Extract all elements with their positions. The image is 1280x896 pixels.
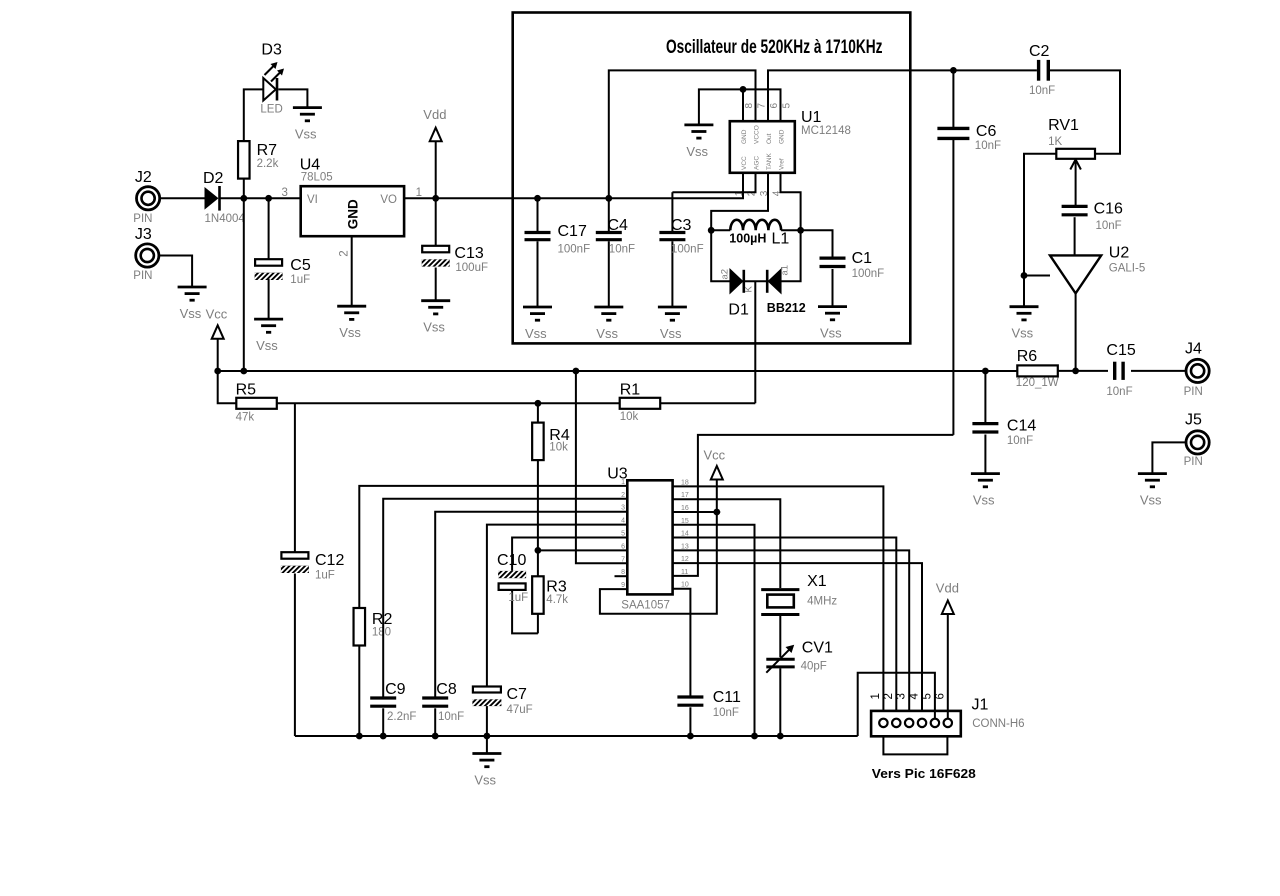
svg-text:VI: VI: [307, 194, 318, 206]
capacitor C11 10nF: [677, 689, 741, 736]
svg-text:1N4004: 1N4004: [205, 213, 246, 225]
svg-text:5: 5: [921, 693, 933, 699]
svg-text:C9: C9: [385, 681, 406, 698]
svg-text:Vss: Vss: [1140, 493, 1162, 508]
wire ground row bottom: [295, 733, 858, 740]
wire LED cathode to ground: [278, 89, 307, 107]
ground C5: [254, 319, 283, 353]
svg-text:2: 2: [883, 693, 895, 699]
svg-text:16: 16: [681, 505, 689, 512]
svg-text:8: 8: [621, 569, 625, 576]
svg-text:100uF: 100uF: [455, 262, 488, 274]
oscillator frame box: [513, 13, 911, 344]
ground D3: [293, 108, 322, 142]
capacitor C14 10nF: [972, 371, 1036, 474]
svg-text:6: 6: [934, 693, 946, 699]
svg-text:BB212: BB212: [767, 301, 806, 315]
svg-text:C3: C3: [671, 217, 692, 234]
wire U3 pin11 to C6 (fref input): [673, 435, 954, 576]
svg-text:C8: C8: [436, 681, 457, 698]
svg-text:1uF: 1uF: [290, 274, 310, 286]
svg-text:C16: C16: [1094, 201, 1123, 218]
svg-text:TANK: TANK: [766, 152, 773, 170]
svg-text:1K: 1K: [1048, 136, 1062, 148]
capacitor C2 10nF: [1029, 43, 1055, 97]
capacitor C5 1uF: [247, 198, 311, 319]
U3 pin numbers: [621, 479, 689, 589]
synthesizer U3 SAA1057: [607, 466, 672, 612]
oscillator U1 MC12148: [730, 109, 851, 173]
wire U3 pin7 to Vcc row: [576, 371, 627, 563]
svg-text:R7: R7: [257, 142, 278, 159]
power Vcc arrow left: [206, 307, 228, 372]
svg-text:8: 8: [744, 103, 755, 109]
resistor R4 10k: [532, 403, 570, 550]
resistor R1 10k: [538, 382, 755, 424]
wire RF output row: [1058, 368, 1186, 375]
wire R5 to R1/R4 node: [277, 400, 542, 407]
wire U3 pin2 bus to C9: [383, 499, 627, 698]
svg-text:4.7k: 4.7k: [546, 594, 568, 606]
svg-text:7: 7: [757, 103, 768, 109]
wire D1 cathode tap down to R1: [754, 281, 756, 403]
svg-text:1uF: 1uF: [315, 569, 335, 581]
ground U4: [337, 306, 366, 340]
svg-text:11: 11: [681, 569, 688, 576]
capacitor C3 100nF: [659, 192, 703, 307]
wire U3 pin1 bus to R2: [359, 486, 627, 608]
svg-text:AGC: AGC: [754, 156, 761, 170]
capacitor C4 10nF: [596, 198, 635, 307]
svg-text:Vss: Vss: [686, 144, 708, 159]
ground C13: [421, 301, 450, 335]
svg-text:7: 7: [621, 556, 625, 563]
capacitor C9 2.2nF: [370, 681, 416, 736]
svg-text:Vss: Vss: [660, 326, 682, 341]
wire J3 to ground: [160, 256, 193, 288]
wire U3 pin16 to Vcc: [673, 511, 721, 513]
svg-text:1uF: 1uF: [508, 592, 528, 604]
svg-text:Vss: Vss: [474, 773, 496, 788]
svg-text:Vss: Vss: [1012, 326, 1034, 341]
connector J4: [1184, 340, 1210, 398]
svg-text:1: 1: [621, 479, 625, 486]
svg-text:9: 9: [621, 582, 625, 589]
svg-text:C14: C14: [1007, 418, 1036, 435]
ground bottom row: [472, 736, 501, 788]
capacitor C6 10nF: [937, 70, 1001, 435]
wire U1 pin2 AGC to C3: [672, 173, 755, 192]
svg-text:Vdd: Vdd: [423, 107, 446, 122]
wire U3 pin12 to J1 pin4: [673, 563, 922, 718]
svg-text:GND: GND: [346, 199, 361, 229]
wire J5 to ground: [1152, 442, 1186, 473]
wire U3 pin15 to ground row: [673, 525, 755, 736]
svg-text:D3: D3: [261, 42, 282, 59]
svg-text:Vers Pic 16F628: Vers Pic 16F628: [872, 767, 976, 781]
wire U3 pin17 to X1: [673, 499, 781, 588]
ground C3: [658, 307, 687, 341]
svg-text:17: 17: [681, 492, 689, 499]
svg-text:3: 3: [621, 505, 625, 512]
svg-text:120_1W: 120_1W: [1016, 377, 1059, 389]
svg-text:2.2k: 2.2k: [257, 158, 279, 170]
svg-text:15: 15: [681, 518, 689, 525]
svg-text:a2: a2: [720, 269, 731, 280]
connector J5: [1184, 412, 1210, 468]
svg-text:L1: L1: [772, 231, 790, 248]
svg-text:K: K: [744, 286, 755, 293]
inductor L1 100uH: [708, 220, 804, 248]
svg-text:100nF: 100nF: [852, 268, 885, 280]
U3 pin8 stub: [615, 575, 628, 577]
wire U3 pin18 to J1 pin1: [673, 486, 884, 718]
wire U1 pin4 Vref to tank right node: [781, 173, 801, 231]
wire U4 VO rail to U1 pin1 (Vcc rail): [404, 173, 743, 202]
svg-text:47k: 47k: [236, 411, 255, 423]
svg-text:CONN-H6: CONN-H6: [972, 718, 1024, 730]
svg-text:10nF: 10nF: [713, 707, 739, 719]
svg-text:14: 14: [681, 531, 689, 538]
ground U1: [684, 125, 713, 159]
connector J2: [133, 169, 159, 225]
wire U1 pin8 pin5 GND to ground: [699, 86, 781, 125]
wire C12 branch: [294, 403, 296, 552]
svg-text:C17: C17: [558, 223, 587, 240]
capacitor C7 47uF: [466, 686, 533, 736]
svg-text:5: 5: [782, 103, 793, 109]
svg-text:Vdd: Vdd: [936, 581, 959, 596]
svg-text:100nF: 100nF: [671, 244, 704, 256]
wire U3 pin9 to Vcc arrow: [600, 480, 720, 614]
wire U3 pin10 to C11: [673, 589, 691, 697]
svg-text:4: 4: [909, 693, 921, 700]
power Vdd arrow at J1: [936, 581, 959, 719]
svg-text:C1: C1: [852, 250, 873, 267]
wire U1 pin7 VCCO to Vcc rail: [609, 70, 756, 198]
svg-text:10nF: 10nF: [1096, 220, 1122, 232]
svg-text:180: 180: [372, 626, 391, 638]
svg-text:U2: U2: [1109, 245, 1130, 262]
svg-text:C12: C12: [315, 552, 344, 569]
svg-text:J5: J5: [1185, 412, 1202, 429]
ground J5: [1138, 474, 1167, 508]
wire U3 pin14 to J1 pin2: [673, 538, 897, 719]
svg-text:1: 1: [870, 693, 882, 699]
ground C14: [971, 474, 1000, 508]
svg-text:VCCO: VCCO: [754, 125, 761, 144]
svg-text:C10: C10: [497, 552, 526, 569]
resistor R7 2.2k: [238, 141, 279, 198]
varactor D1 BB212 dual diode: [711, 230, 806, 318]
svg-text:C5: C5: [290, 257, 311, 274]
wire Vcc distribution row: [214, 368, 1017, 375]
svg-text:1: 1: [416, 187, 422, 199]
svg-text:3: 3: [282, 187, 288, 199]
svg-text:J4: J4: [1185, 340, 1202, 357]
ground C1: [818, 307, 847, 341]
connector J3: [133, 226, 159, 282]
ground C17: [523, 307, 552, 341]
potentiometer RV1 1K: [1024, 117, 1095, 276]
svg-text:Vss: Vss: [596, 326, 618, 341]
capacitor C1 100nF: [801, 230, 885, 306]
capacitor C15 10nF: [1106, 342, 1135, 398]
trimmer capacitor CV1 40pF: [766, 639, 833, 736]
svg-text:R6: R6: [1017, 348, 1038, 365]
svg-text:U1: U1: [801, 109, 822, 126]
svg-text:Vss: Vss: [820, 326, 842, 341]
svg-text:D1: D1: [728, 302, 749, 319]
svg-text:Vref: Vref: [779, 158, 786, 170]
ground J3: [178, 287, 207, 321]
svg-text:10k: 10k: [620, 411, 639, 423]
svg-text:Vss: Vss: [295, 127, 317, 142]
svg-text:2: 2: [339, 250, 351, 256]
wire D2 to U4 VI with junctions: [221, 187, 301, 202]
svg-text:10nF: 10nF: [1106, 386, 1132, 398]
amplifier U2 GALI-5: [1021, 245, 1146, 307]
svg-text:Vss: Vss: [339, 325, 361, 340]
svg-text:Vss: Vss: [973, 493, 995, 508]
wire J2 to D2: [160, 197, 204, 199]
svg-text:MC12148: MC12148: [801, 125, 851, 137]
svg-text:10nF: 10nF: [609, 244, 635, 256]
svg-text:GALI-5: GALI-5: [1109, 263, 1145, 275]
svg-text:10nF: 10nF: [438, 711, 464, 723]
wire U3 pin5 bus to C10: [512, 538, 627, 571]
svg-text:SAA1057: SAA1057: [621, 600, 670, 612]
svg-text:4: 4: [621, 518, 625, 525]
svg-text:40pF: 40pF: [801, 661, 827, 673]
wire C2 to RV1 right: [1050, 70, 1120, 153]
svg-text:Vss: Vss: [180, 306, 202, 321]
wire U1 pin3 TANK to tank node: [711, 173, 768, 231]
svg-text:6: 6: [621, 543, 625, 550]
wire U4 pin2 to ground: [339, 236, 352, 306]
svg-text:J2: J2: [135, 169, 152, 186]
svg-text:12: 12: [681, 556, 689, 563]
svg-text:10: 10: [681, 582, 689, 589]
capacitor C10 1uF: [491, 552, 538, 633]
svg-text:78L05: 78L05: [301, 172, 333, 184]
wire U3 pin6 bus to R4/R3 node: [535, 547, 628, 554]
wire U1 pin6 Out to C2/C6 node: [768, 67, 1037, 121]
svg-text:R3: R3: [546, 579, 567, 596]
svg-text:C6: C6: [976, 123, 997, 140]
U1 pin numbers: [734, 103, 793, 197]
resistor R6 120_1W: [1016, 348, 1059, 389]
svg-text:PIN: PIN: [133, 213, 152, 225]
svg-text:LED: LED: [260, 103, 282, 115]
svg-text:Out: Out: [766, 133, 773, 144]
svg-text:C7: C7: [507, 686, 528, 703]
ground RV1/U2: [1010, 307, 1039, 341]
resistor R2 180: [354, 608, 393, 736]
svg-text:C11: C11: [713, 689, 741, 706]
svg-text:18: 18: [681, 479, 689, 486]
svg-text:CV1: CV1: [802, 639, 833, 656]
wire D2 node down to Vcc row: [243, 198, 245, 371]
resistor R3 4.7k: [532, 550, 568, 633]
svg-text:GND: GND: [779, 129, 786, 144]
power Vdd arrow at U4 output: [423, 107, 446, 198]
svg-text:10k: 10k: [549, 442, 568, 454]
svg-text:X1: X1: [807, 573, 827, 590]
svg-text:PIN: PIN: [1184, 456, 1203, 468]
svg-text:VCC: VCC: [741, 156, 748, 170]
svg-text:GND: GND: [741, 129, 748, 144]
wire U2 output down to RF row: [1075, 293, 1077, 371]
ground C4: [594, 307, 623, 341]
svg-text:R1: R1: [620, 382, 641, 399]
svg-text:C15: C15: [1106, 342, 1135, 359]
svg-text:100nF: 100nF: [558, 244, 591, 256]
svg-text:C4: C4: [608, 217, 629, 234]
svg-text:5: 5: [621, 531, 625, 538]
svg-text:Vcc: Vcc: [704, 448, 726, 463]
svg-text:a1: a1: [779, 265, 790, 276]
svg-text:4MHz: 4MHz: [807, 596, 837, 608]
svg-text:D2: D2: [203, 170, 224, 187]
svg-text:2: 2: [621, 492, 625, 499]
svg-text:C2: C2: [1029, 43, 1050, 60]
svg-text:6: 6: [769, 103, 780, 109]
connector J1 CONN-H6: [858, 673, 1025, 781]
svg-text:10nF: 10nF: [1007, 435, 1033, 447]
svg-text:VO: VO: [380, 194, 397, 206]
svg-text:J1: J1: [972, 697, 989, 714]
svg-text:Vcc: Vcc: [206, 307, 228, 322]
capacitor C8 10nF: [422, 681, 464, 736]
svg-text:Vss: Vss: [525, 326, 547, 341]
svg-text:PIN: PIN: [133, 270, 152, 282]
svg-text:Vss: Vss: [256, 338, 278, 353]
resistor R5 47k: [218, 371, 277, 423]
power Vcc arrow U3: [704, 448, 726, 480]
capacitor C16 10nF: [1062, 201, 1123, 256]
svg-text:3: 3: [896, 693, 908, 699]
svg-text:C13: C13: [454, 245, 483, 262]
LED D3: [244, 42, 284, 142]
svg-text:10nF: 10nF: [1029, 85, 1055, 97]
svg-text:RV1: RV1: [1048, 117, 1079, 134]
svg-text:R5: R5: [236, 382, 257, 399]
capacitor C17 100nF: [525, 198, 591, 307]
capacitor C13 100uF: [414, 198, 488, 300]
diode D2 1N4004: [203, 170, 245, 225]
wire U3 pin4 bus to C7: [487, 525, 627, 687]
crystal X1 4MHz: [761, 573, 837, 657]
svg-text:J3: J3: [135, 226, 152, 243]
wire U3 pin13 to J1 pin3: [673, 550, 910, 718]
svg-text:100µH: 100µH: [729, 231, 766, 245]
svg-text:Vss: Vss: [423, 320, 445, 335]
wire U3 pin3 bus to C8: [435, 512, 627, 698]
capacitor C12 1uF: [274, 552, 345, 736]
svg-text:2.2nF: 2.2nF: [387, 711, 416, 723]
svg-text:13: 13: [681, 543, 689, 550]
svg-text:10nF: 10nF: [975, 140, 1001, 152]
svg-text:47uF: 47uF: [507, 704, 533, 716]
svg-text:PIN: PIN: [1184, 386, 1203, 398]
regulator U4 78L05: [300, 157, 404, 237]
svg-text:Oscillateur de 520KHz à 1710KH: Oscillateur de 520KHz à 1710KHz: [666, 37, 883, 58]
